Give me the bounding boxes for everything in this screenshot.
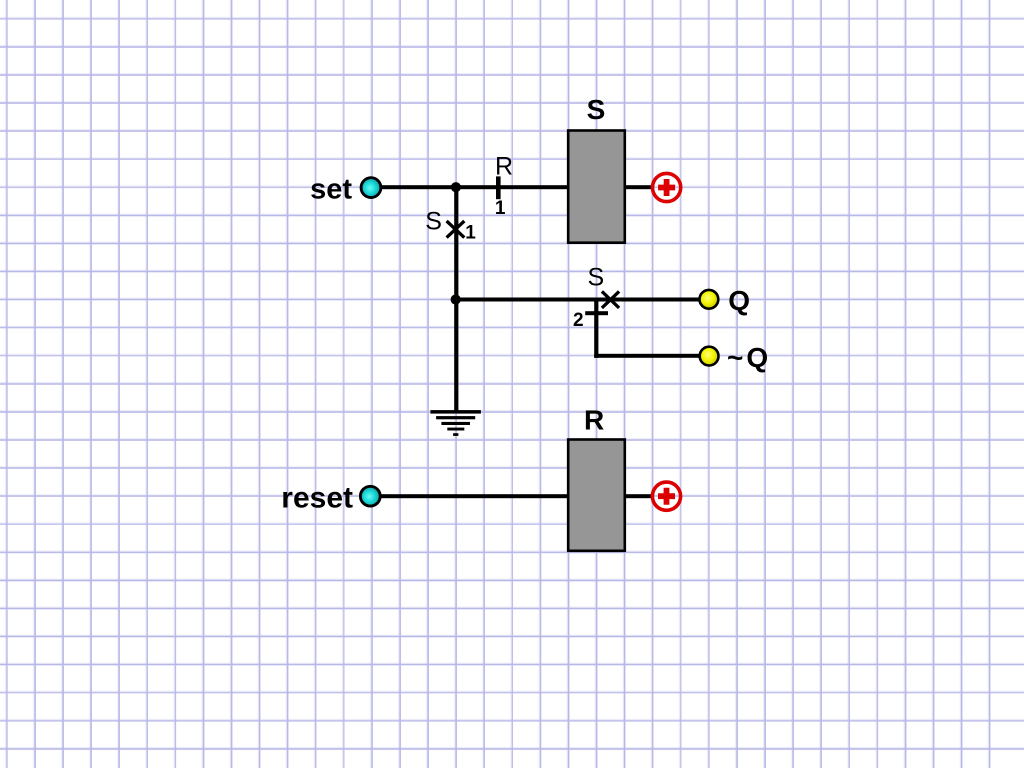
svg-text:Q: Q xyxy=(728,285,750,316)
power terminal + (bottom) xyxy=(652,482,680,510)
svg-text:2: 2 xyxy=(573,310,584,331)
svg-text:R: R xyxy=(584,404,604,435)
power terminal + (top) xyxy=(653,173,681,201)
contact R1 tick xyxy=(496,176,501,199)
contact S2 tick xyxy=(585,311,608,315)
svg-text:S: S xyxy=(425,208,442,236)
output terminal Q xyxy=(700,290,719,309)
node A junction dot xyxy=(451,182,461,192)
input terminal set xyxy=(361,178,381,198)
svg-text:S: S xyxy=(587,94,606,125)
wire: coil S to + supply xyxy=(625,185,652,189)
svg-text:S: S xyxy=(588,264,605,292)
coil R body xyxy=(568,440,625,551)
wire: reset terminal to coil R xyxy=(378,494,568,498)
svg-text:~Q: ~Q xyxy=(727,342,771,373)
output terminal ~Q xyxy=(700,347,719,366)
svg-text:1: 1 xyxy=(495,198,506,219)
wire: coil R to + supply xyxy=(625,494,652,498)
svg-text:1: 1 xyxy=(465,223,476,244)
wire: node B to Q output xyxy=(454,298,699,302)
contact S2 cross xyxy=(602,291,619,308)
wire: vertical from node A down to ground xyxy=(454,186,458,411)
svg-text:set: set xyxy=(310,173,352,205)
svg-text:R: R xyxy=(495,153,513,181)
wire: branch to ~Q output xyxy=(594,354,699,358)
wire: branch down from contact S2 xyxy=(594,298,598,358)
input terminal reset xyxy=(360,486,380,506)
wire: set terminal to coil S xyxy=(379,185,568,189)
ground xyxy=(430,410,481,436)
contact S1 cross xyxy=(447,221,465,238)
node B junction dot xyxy=(451,294,461,304)
svg-text:reset: reset xyxy=(281,482,353,515)
coil S body xyxy=(568,131,625,243)
